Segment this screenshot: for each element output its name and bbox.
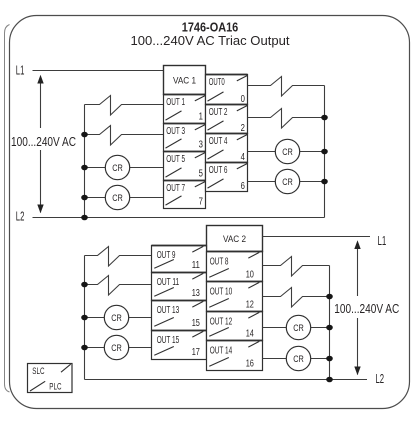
svg-text:17: 17 [192, 347, 200, 358]
svg-text:OUT 3: OUT 3 [166, 126, 185, 137]
junction dot, right bus / L2 rail (bottom) [326, 377, 333, 383]
wire left bus riser (top) [84, 105, 86, 218]
svg-text:L2: L2 [16, 210, 25, 224]
wire OUT4 circuit [248, 151, 325, 153]
triac output box OUT 7 [164, 181, 206, 209]
wire OUT15 circuit [85, 347, 152, 349]
triac output box OUT 1 [164, 95, 206, 124]
svg-text:CR: CR [112, 193, 123, 204]
svg-text:15: 15 [192, 318, 201, 329]
svg-text:L1: L1 [378, 233, 387, 248]
svg-text:14: 14 [246, 328, 255, 339]
wire OUT5 circuit [85, 167, 164, 169]
svg-text:4: 4 [241, 152, 246, 163]
wire OUT13 circuit [85, 317, 152, 319]
triac output box OUT 5 [164, 152, 206, 181]
wire L1 to VAC1 [33, 70, 164, 72]
svg-text:OUT 4: OUT 4 [209, 136, 228, 147]
svg-text:OUT 15: OUT 15 [157, 335, 180, 346]
svg-text:L2: L2 [376, 372, 385, 386]
legend box SLC / PLC [28, 364, 73, 393]
junction dot, right bus / OUT2 wire (top) [321, 115, 328, 121]
junction dot, right bus / OUT10 wire (bottom) [326, 294, 333, 300]
svg-text:OUT 5: OUT 5 [166, 154, 185, 165]
svg-text:OUT 10: OUT 10 [210, 287, 233, 298]
svg-text:VAC 2: VAC 2 [223, 234, 246, 245]
junction dot, left bus / OUT3 wire (top) [81, 132, 88, 138]
svg-text:CR: CR [282, 177, 293, 188]
svg-text:12: 12 [246, 299, 254, 310]
triac output box OUT 13 [152, 301, 207, 331]
wire OUT11 circuit + lamp-load break symbol [85, 276, 152, 296]
svg-text:11: 11 [192, 260, 200, 271]
wire OUT1 circuit + lamp-load break symbol [85, 96, 164, 116]
svg-text:OUT 8: OUT 8 [210, 257, 229, 268]
triac output box OUT 9 [152, 246, 207, 273]
svg-text:5: 5 [199, 168, 204, 179]
svg-text:OUT 13: OUT 13 [157, 305, 180, 316]
svg-text:16: 16 [246, 358, 255, 369]
svg-text:100...240V AC: 100...240V AC [11, 135, 76, 149]
triac output box OUT 6 [206, 163, 248, 192]
svg-text:CR: CR [112, 163, 123, 174]
wire L2 rail (bottom section) [85, 379, 368, 381]
wire OUT10 circuit + lamp-load break symbol [263, 288, 330, 308]
relay coil CR (OUT15 circuit) [104, 335, 128, 359]
triac output box OUT 2 [206, 105, 248, 134]
relay coil CR (OUT7 circuit) [105, 185, 129, 209]
wire OUT9 circuit + lamp-load break symbol [85, 247, 152, 267]
junction dot, left bus / OUT13 wire (bottom) [81, 315, 88, 321]
wire left bus riser (bottom) [84, 256, 86, 380]
wire OUT12 circuit [263, 327, 330, 329]
svg-text:7: 7 [199, 196, 203, 207]
relay coil CR (OUT14 circuit) [286, 346, 310, 370]
triac output box OUT 8 [207, 252, 263, 282]
junction dot, right bus / OUT12 wire (bottom) [326, 325, 333, 331]
relay coil CR (OUT12 circuit) [286, 315, 310, 339]
svg-text:100...240V AC Triac Output: 100...240V AC Triac Output [131, 33, 290, 48]
wire OUT8 circuit + lamp-load break symbol [263, 257, 330, 277]
junction dot, left bus / OUT11 wire (bottom) [81, 282, 88, 288]
svg-text:CR: CR [111, 313, 122, 324]
svg-text:VAC 1: VAC 1 [173, 76, 196, 87]
svg-text:OUT 2: OUT 2 [209, 107, 228, 118]
wire OUT7 circuit [85, 197, 164, 199]
triac output box OUT 11 [152, 273, 207, 301]
junction dot, left bus / OUT5 wire (top) [81, 165, 88, 171]
wire OUT14 circuit [263, 358, 330, 360]
svg-text:13: 13 [192, 288, 201, 299]
svg-text:CR: CR [282, 147, 293, 158]
svg-text:OUT 11: OUT 11 [157, 277, 180, 288]
svg-text:CR: CR [111, 343, 122, 354]
svg-text:3: 3 [199, 139, 204, 150]
triac output box OUT 4 [206, 134, 248, 163]
svg-text:SLC: SLC [32, 366, 44, 377]
svg-text:OUT 7: OUT 7 [166, 183, 185, 194]
relay coil CR (OUT4 circuit) [275, 139, 299, 163]
svg-text:OUT0: OUT0 [209, 77, 225, 88]
svg-text:1: 1 [199, 111, 203, 122]
page column rule (left) [5, 25, 10, 393]
svg-text:OUT 6: OUT 6 [209, 165, 228, 176]
svg-text:PLC: PLC [49, 382, 61, 393]
triac output box OUT 15 [152, 331, 207, 360]
svg-text:10: 10 [246, 269, 255, 280]
triac output box OUT 12 [207, 312, 263, 341]
module box VAC 1 [164, 66, 206, 95]
wire OUT0 circuit + lamp-load break symbol [248, 77, 325, 97]
triac output box OUT 14 [207, 341, 263, 371]
relay coil CR (OUT13 circuit) [104, 305, 128, 329]
wire OUT2 circuit + lamp-load break symbol [248, 109, 325, 129]
wire VAC2 to L1 [263, 236, 371, 238]
wire right bus riser (top) [324, 86, 326, 218]
wire right bus riser (bottom) [329, 266, 331, 380]
relay coil CR (OUT5 circuit) [105, 155, 129, 179]
svg-text:2: 2 [241, 123, 245, 134]
junction dot, right bus / OUT14 wire (bottom) [326, 356, 333, 362]
triac output box OUT0 [206, 75, 248, 105]
relay coil CR (OUT6 circuit) [275, 169, 299, 193]
svg-text:CR: CR [293, 323, 304, 334]
junction dot, right bus / OUT6 wire (top) [321, 179, 328, 185]
svg-text:0: 0 [241, 94, 246, 105]
svg-text:L1: L1 [16, 64, 25, 78]
wire L2 rail (top section) [33, 217, 325, 219]
module box VAC 2 [207, 226, 263, 252]
svg-text:OUT 14: OUT 14 [210, 346, 233, 357]
junction dot, left bus / OUT7 wire (top) [81, 195, 88, 201]
junction dot, left bus / OUT15 wire (bottom) [81, 345, 88, 351]
junction dot, right bus / OUT4 wire (top) [321, 149, 328, 155]
wire OUT3 circuit + lamp-load break symbol [85, 126, 164, 146]
wire OUT6 circuit [248, 181, 325, 183]
svg-text:6: 6 [241, 181, 246, 192]
voltage range arrow (top) [37, 75, 43, 213]
triac output box OUT 3 [164, 124, 206, 152]
svg-text:OUT 12: OUT 12 [210, 317, 233, 328]
junction dot, left bus / L2 rail (top) [81, 215, 88, 221]
voltage range arrow (bottom) [354, 240, 360, 375]
svg-text:CR: CR [293, 354, 304, 365]
triac output box OUT 10 [207, 282, 263, 312]
svg-text:OUT 9: OUT 9 [157, 250, 176, 261]
svg-text:100...240V AC: 100...240V AC [334, 302, 399, 316]
svg-text:OUT 1: OUT 1 [166, 97, 185, 108]
